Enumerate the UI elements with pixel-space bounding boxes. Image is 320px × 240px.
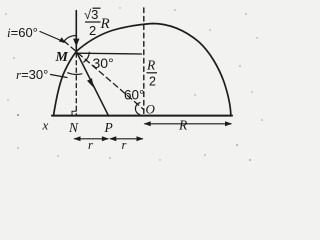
svg-text:R: R	[146, 58, 156, 73]
arrowhead refracted ray	[87, 78, 94, 87]
vertical dashed line M to N	[75, 53, 77, 116]
svg-text:√3: √3	[84, 7, 98, 22]
scan speckle noise	[5, 7, 263, 161]
incident ray (vertical, down to M)	[75, 11, 77, 52]
angle arc r at M	[68, 73, 82, 75]
refracted ray M to P	[76, 52, 108, 117]
angle arc 30deg at M	[84, 52, 90, 62]
horizontal reference line from M	[76, 52, 141, 55]
pointer line from r=30 label	[51, 75, 68, 78]
R measurement arrow O-edge	[145, 123, 231, 125]
x axis (flat face of semicircular slab)	[52, 115, 232, 117]
angle arc 60deg at O	[135, 103, 140, 115]
svg-text:N: N	[68, 120, 79, 135]
r measurement arrow N-P	[75, 138, 109, 140]
arrowheads r arrow 1	[74, 136, 81, 141]
svg-text:r: r	[88, 138, 93, 152]
angle arc i at M	[63, 35, 76, 42]
paper background	[0, 0, 268, 167]
svg-text:60°: 60°	[124, 88, 144, 103]
normal line through M and O (dashed)	[64, 41, 144, 110]
svg-text:2: 2	[149, 75, 156, 89]
svg-text:30°: 30°	[93, 55, 114, 71]
arrowhead incident ray	[73, 39, 79, 47]
svg-text:x: x	[42, 118, 49, 133]
svg-text:r=30°: r=30°	[16, 67, 48, 82]
r measurement arrow P-O	[110, 138, 142, 140]
svg-text:2: 2	[89, 23, 96, 38]
svg-text:R: R	[178, 118, 188, 133]
svg-text:r: r	[122, 138, 127, 152]
arrowheads R arrow	[144, 121, 151, 126]
pointer line from i=60 label	[40, 32, 61, 41]
svg-text:R: R	[100, 16, 110, 32]
arrowheads r arrow 2	[109, 136, 116, 141]
arrowhead i pointer	[59, 37, 66, 43]
svg-text:P: P	[104, 120, 113, 135]
right angle mark at N	[72, 111, 76, 115]
vertical dashed line above O	[143, 8, 145, 116]
semicircular glass surface arc	[54, 24, 231, 116]
svg-text:M: M	[55, 50, 69, 65]
svg-text:O: O	[146, 102, 156, 117]
svg-text:i=60°: i=60°	[7, 25, 38, 40]
